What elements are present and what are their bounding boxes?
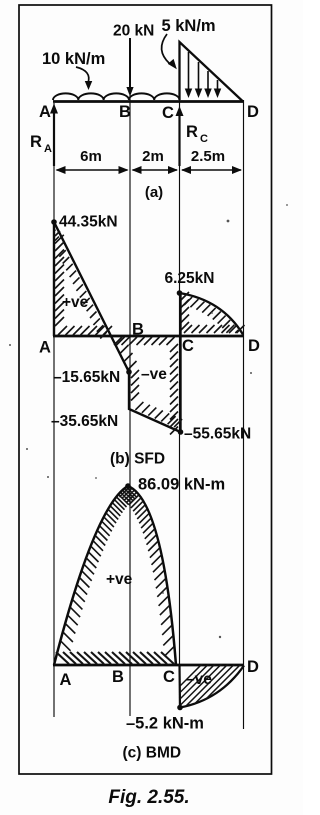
svg-text:D: D: [248, 337, 260, 355]
svg-text:10 kN/m: 10 kN/m: [42, 50, 105, 68]
svg-text:Fig. 2.55.: Fig. 2.55.: [108, 787, 189, 808]
svg-text:44.35kN: 44.35kN: [59, 214, 118, 231]
svg-text:6.25kN: 6.25kN: [165, 270, 215, 287]
svg-text:C: C: [162, 104, 174, 122]
svg-text:2m: 2m: [142, 148, 164, 165]
svg-text:A: A: [39, 339, 51, 357]
svg-text:–ve: –ve: [141, 366, 167, 383]
svg-text:(a): (a): [145, 184, 163, 201]
svg-text:R: R: [30, 133, 42, 151]
svg-text:–5.2 kN-m: –5.2 kN-m: [126, 715, 204, 733]
svg-text:(c) BMD: (c) BMD: [123, 745, 182, 762]
svg-text:–ve: –ve: [186, 671, 212, 688]
svg-text:A: A: [60, 671, 72, 689]
svg-text:20 kN: 20 kN: [113, 23, 154, 40]
svg-text:C: C: [163, 668, 175, 686]
svg-text:B: B: [132, 321, 144, 339]
svg-text:86.09 kN-m: 86.09 kN-m: [138, 476, 225, 494]
svg-text:–55.65kN: –55.65kN: [184, 426, 251, 443]
svg-text:5 kN/m: 5 kN/m: [162, 17, 216, 35]
svg-text:D: D: [247, 658, 259, 676]
svg-text:A: A: [39, 103, 51, 121]
svg-text:+ve: +ve: [62, 294, 89, 311]
svg-text:+ve: +ve: [106, 571, 133, 588]
svg-text:C: C: [182, 337, 194, 355]
svg-text:C: C: [200, 133, 208, 145]
svg-text:B: B: [119, 103, 131, 121]
svg-text:–15.65kN: –15.65kN: [53, 369, 120, 386]
svg-text:B: B: [112, 668, 124, 686]
svg-text:D: D: [247, 103, 259, 121]
svg-text:(b) SFD: (b) SFD: [110, 451, 165, 468]
svg-text:2.5m: 2.5m: [191, 148, 225, 165]
svg-text:6m: 6m: [80, 148, 102, 165]
svg-text:R: R: [186, 123, 198, 141]
svg-text:–35.65kN: –35.65kN: [51, 413, 118, 430]
svg-text:A: A: [44, 143, 52, 155]
